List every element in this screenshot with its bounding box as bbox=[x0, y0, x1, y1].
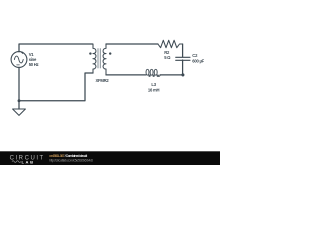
wire inductor to transformer bbox=[106, 74, 146, 76]
labels bbox=[29, 50, 205, 93]
transformer polarity dot left bbox=[89, 52, 91, 54]
svg-text:XFMR2: XFMR2 bbox=[96, 78, 110, 83]
svg-text:50 Hz: 50 Hz bbox=[29, 62, 39, 67]
junction dot right node bbox=[181, 73, 184, 76]
svg-text:5 Ω: 5 Ω bbox=[164, 55, 171, 60]
wire source bottom bbox=[18, 67, 20, 100]
logo squiggle bbox=[12, 161, 21, 163]
wire capacitor to bottom node bbox=[182, 60, 184, 75]
resistor R2 bbox=[158, 40, 183, 47]
wire top-left net bbox=[19, 44, 93, 52]
wire bottom-left net bbox=[19, 73, 93, 101]
wire top-right net bbox=[106, 43, 158, 45]
svg-text:http://circuitlab.com/c5e592b6: http://circuitlab.com/c5e592b6rb4dt bbox=[49, 159, 93, 163]
inductor L3 bbox=[146, 69, 160, 76]
wire bottom-right net bbox=[160, 74, 183, 76]
transformer U1 secondary winding bbox=[103, 44, 106, 75]
svg-text:ce4581L307 / Combined circuit: ce4581L307 / Combined circuit bbox=[49, 154, 88, 158]
svg-text:16 mH: 16 mH bbox=[148, 88, 160, 93]
svg-text:600 µF: 600 µF bbox=[192, 58, 204, 63]
transformer polarity dot right bbox=[109, 52, 111, 54]
junction dot ground node bbox=[18, 99, 21, 102]
svg-text:LAB: LAB bbox=[22, 159, 34, 164]
wire right side down to capacitor bbox=[182, 44, 184, 57]
voltage source V1 bbox=[11, 52, 27, 68]
ground bbox=[18, 101, 20, 109]
capacitor C2 bbox=[176, 57, 190, 60]
transformer core bbox=[98, 48, 100, 68]
transformer U1 primary winding bbox=[93, 44, 96, 73]
watermark bar bbox=[0, 151, 220, 165]
